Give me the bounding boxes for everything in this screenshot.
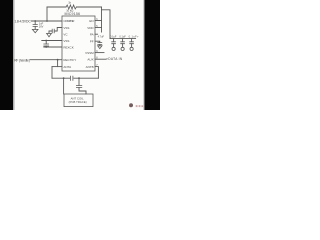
svg-text:(PCB TRACE): (PCB TRACE) (69, 100, 87, 104)
ground circle below C7c (130, 47, 133, 50)
ground below C6 (98, 46, 102, 49)
svg-text:0.1uF: 0.1uF (119, 36, 126, 39)
antenna box (PCB trace coil) (64, 94, 93, 107)
svg-text:PA: PA (90, 32, 94, 36)
wire jog to capacitor bank rail (102, 10, 111, 39)
capacitor C6 (small bypass at pin) (97, 43, 102, 45)
IC U1 body (62, 16, 95, 71)
wire bottom antenna net right (74, 77, 99, 79)
wire VDD top rail left segment (47, 6, 66, 8)
node junction dot C3 bottom (45, 46, 47, 48)
wire pin stub row4 right (95, 41, 100, 42)
wire VDD top rail right segment (76, 6, 101, 8)
wire right corner drop to EN/VDD pins (101, 7, 103, 32)
svg-text:ANTA: ANTA (63, 65, 71, 69)
ground circle below C7b (121, 47, 124, 50)
svg-text:RF (handle): RF (handle) (14, 58, 30, 62)
wire bottom antenna net left (52, 77, 70, 79)
wire ANTA down-left leg (51, 67, 53, 79)
svg-text:10 kΩ: 10 kΩ (66, 8, 73, 12)
svg-text:MIC9156: MIC9156 (65, 12, 81, 16)
wire ANTA pin (52, 66, 62, 68)
resistor R1 (series in top rail) (66, 5, 76, 9)
svg-text:«DATA IN: «DATA IN (106, 57, 123, 61)
wire VSSM pin right (95, 52, 104, 54)
wire ANTB pin right leg (95, 67, 98, 79)
watermark logo (129, 103, 133, 107)
svg-text:VSS: VSS (63, 39, 69, 43)
svg-text:EN: EN (89, 19, 93, 23)
svg-text:16V: 16V (39, 24, 44, 28)
wire drop to antenna box left pin (63, 78, 65, 94)
svg-text:PF: PF (90, 39, 94, 43)
capacitor C4 (series antenna tuning) (71, 76, 73, 81)
node junction dot at C1 tap (34, 20, 36, 22)
node junction dot C3 top (45, 40, 47, 42)
svg-text:1.8-4.5VDC: 1.8-4.5VDC (14, 19, 31, 23)
node junction dot shunt cap (78, 77, 80, 79)
wire junction drop RECTIFY to ANTA row (57, 60, 59, 67)
capacitor C7b (122, 39, 124, 42)
node junction dot at riser (46, 20, 48, 22)
wire input supply to pin 1 (31, 20, 62, 22)
wire RECTIFY pin from RF label (30, 59, 62, 61)
svg-text:VSSM: VSSM (85, 51, 94, 55)
svg-text:COMP/NR: COMP/NR (63, 19, 75, 23)
capacitor C7a (113, 39, 115, 42)
capacitor C5 (shunt antenna) (78, 78, 80, 85)
svg-text:ANTB: ANTB (86, 65, 94, 69)
wire C5 bottom jog to antenna box right pin (79, 87, 86, 94)
svg-text:RECTIFY: RECTIFY (63, 58, 76, 62)
capacitor C1 (input bypass) (34, 21, 36, 24)
svg-text:ANT COIL: ANT COIL (71, 96, 85, 100)
ground circle below C7a (112, 47, 115, 50)
ground below C1 (32, 29, 38, 32)
wire pin 2 stub to C2 (55, 28, 62, 32)
node junction dot on RECTIFY wire (57, 59, 59, 61)
capacitor C2 (series to ground) (52, 29, 54, 33)
capacitor C7c (131, 39, 133, 42)
wire EN pin to pull-up (95, 20, 102, 22)
svg-text:4.7uF: 4.7uF (98, 36, 105, 39)
wire riser from input node to top rail (46, 7, 48, 21)
wire capacitor bank rail (110, 38, 136, 40)
wire pin stub row3 right (95, 33, 98, 35)
svg-text:0.1uF: 0.1uF (110, 36, 117, 39)
svg-text:REXCK: REXCK (63, 45, 73, 49)
node junction dot left drop (63, 77, 65, 79)
svg-text:VSS: VSS (63, 26, 69, 30)
wire AUX data pin right (95, 58, 106, 60)
svg-text:VDD: VDD (87, 26, 94, 30)
wire pin 4 (left) (42, 40, 62, 42)
wire pin 5 (left) (44, 46, 62, 48)
right black border bar (144, 0, 160, 110)
svg-text:AUX: AUX (87, 57, 93, 61)
svg-text:0.1uF+: 0.1uF+ (129, 36, 140, 39)
wire VDD pin to rail drop (95, 27, 102, 29)
left black border bar (0, 0, 13, 110)
ground below C2 (47, 33, 52, 36)
capacitor C3 (between pin4 and pin5 nets) (45, 41, 47, 45)
